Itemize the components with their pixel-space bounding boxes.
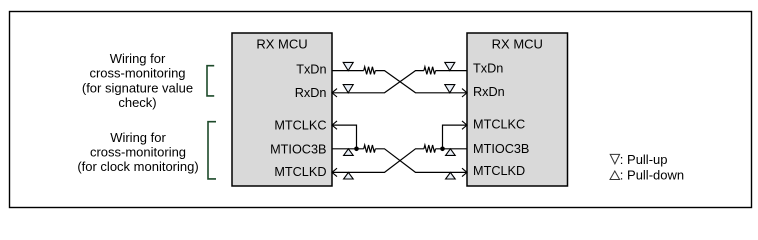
svg-text:RxDn: RxDn (295, 86, 327, 100)
junction dot left MTIOC3B node (354, 147, 359, 152)
wire right MTIOC3B to resistor (436, 148, 468, 150)
annotation text: signature group (82, 51, 193, 110)
pull-up symbol on right RxDn (445, 85, 455, 93)
resistor series left MTIOC3B (364, 145, 376, 153)
svg-text:Wiring for: Wiring for (110, 51, 166, 66)
svg-text:RxDn: RxDn (473, 85, 505, 99)
wire left MTCLKC stub (332, 125, 357, 149)
bracket: clock group (208, 122, 216, 179)
pull-down symbol on right MTIOC3B (446, 149, 456, 156)
arrowhead into right MTCLKC (462, 121, 467, 129)
svg-text:: Pull-up: : Pull-up (620, 152, 668, 167)
pull-down symbol on right MTCLKD (446, 172, 456, 179)
pull-down symbol on left MTIOC3B (344, 149, 354, 156)
svg-text:cross-monitoring: cross-monitoring (89, 66, 185, 81)
bracket: signature group (207, 66, 214, 96)
wire right TxDn crossover to left RxDn (332, 71, 424, 93)
pull-down symbol on left MTCLKD (344, 172, 354, 179)
annotation text: clock group (77, 130, 198, 174)
svg-text:: Pull-down: : Pull-down (620, 168, 684, 183)
left MCU block (232, 33, 332, 186)
resistor series right MTIOC3B (424, 145, 436, 153)
wire right MTCLKC stub (443, 125, 468, 149)
resistor series left TxDn (364, 67, 376, 75)
svg-text:cross-monitoring: cross-monitoring (90, 144, 186, 159)
svg-text:Wiring for: Wiring for (110, 130, 166, 145)
svg-text:TxDn: TxDn (296, 63, 326, 77)
svg-text:MTIOC3B: MTIOC3B (473, 142, 529, 156)
svg-text:RX MCU: RX MCU (256, 37, 307, 52)
svg-text:RX MCU: RX MCU (492, 37, 543, 52)
wire left MTCLKD crossover to right MTIOC3B (332, 149, 424, 173)
wire left MTIOC3B crossover to right MTCLKD (375, 149, 467, 173)
svg-text:check): check) (118, 95, 156, 110)
svg-text:MTIOC3B: MTIOC3B (270, 143, 326, 157)
arrowhead into left MTCLKD (332, 168, 337, 176)
svg-text:(for clock monitoring): (for clock monitoring) (77, 159, 198, 174)
svg-text:MTCLKC: MTCLKC (274, 118, 326, 132)
arrowhead into right RxDn (462, 89, 467, 97)
resistor series right TxDn (424, 67, 436, 75)
arrowhead into right MTCLKD (462, 168, 467, 176)
pull-up symbol on left RxDn (343, 85, 353, 93)
wire left TxDn crossover to right RxDn (375, 71, 467, 93)
right MCU block (467, 33, 568, 186)
svg-text:TxDn: TxDn (473, 62, 503, 76)
pull-up symbol on right TxDn (445, 62, 455, 70)
junction dot right MTIOC3B node (440, 147, 445, 152)
svg-text:MTCLKC: MTCLKC (473, 117, 525, 131)
wire left MTIOC3B to resistor (332, 148, 364, 150)
legend pull-down symbol (610, 171, 620, 180)
arrowhead into left RxDn (332, 89, 337, 97)
svg-text:MTCLKD: MTCLKD (473, 164, 525, 178)
svg-text:MTCLKD: MTCLKD (274, 165, 326, 179)
svg-text:(for signature value: (for signature value (82, 80, 193, 95)
wire right TxDn to resistor (436, 70, 468, 72)
pull-up symbol on left TxDn (343, 62, 353, 70)
legend pull-up symbol (610, 154, 619, 164)
arrowhead into left MTCLKC (332, 121, 337, 129)
wire left TxDn to resistor (332, 70, 364, 72)
